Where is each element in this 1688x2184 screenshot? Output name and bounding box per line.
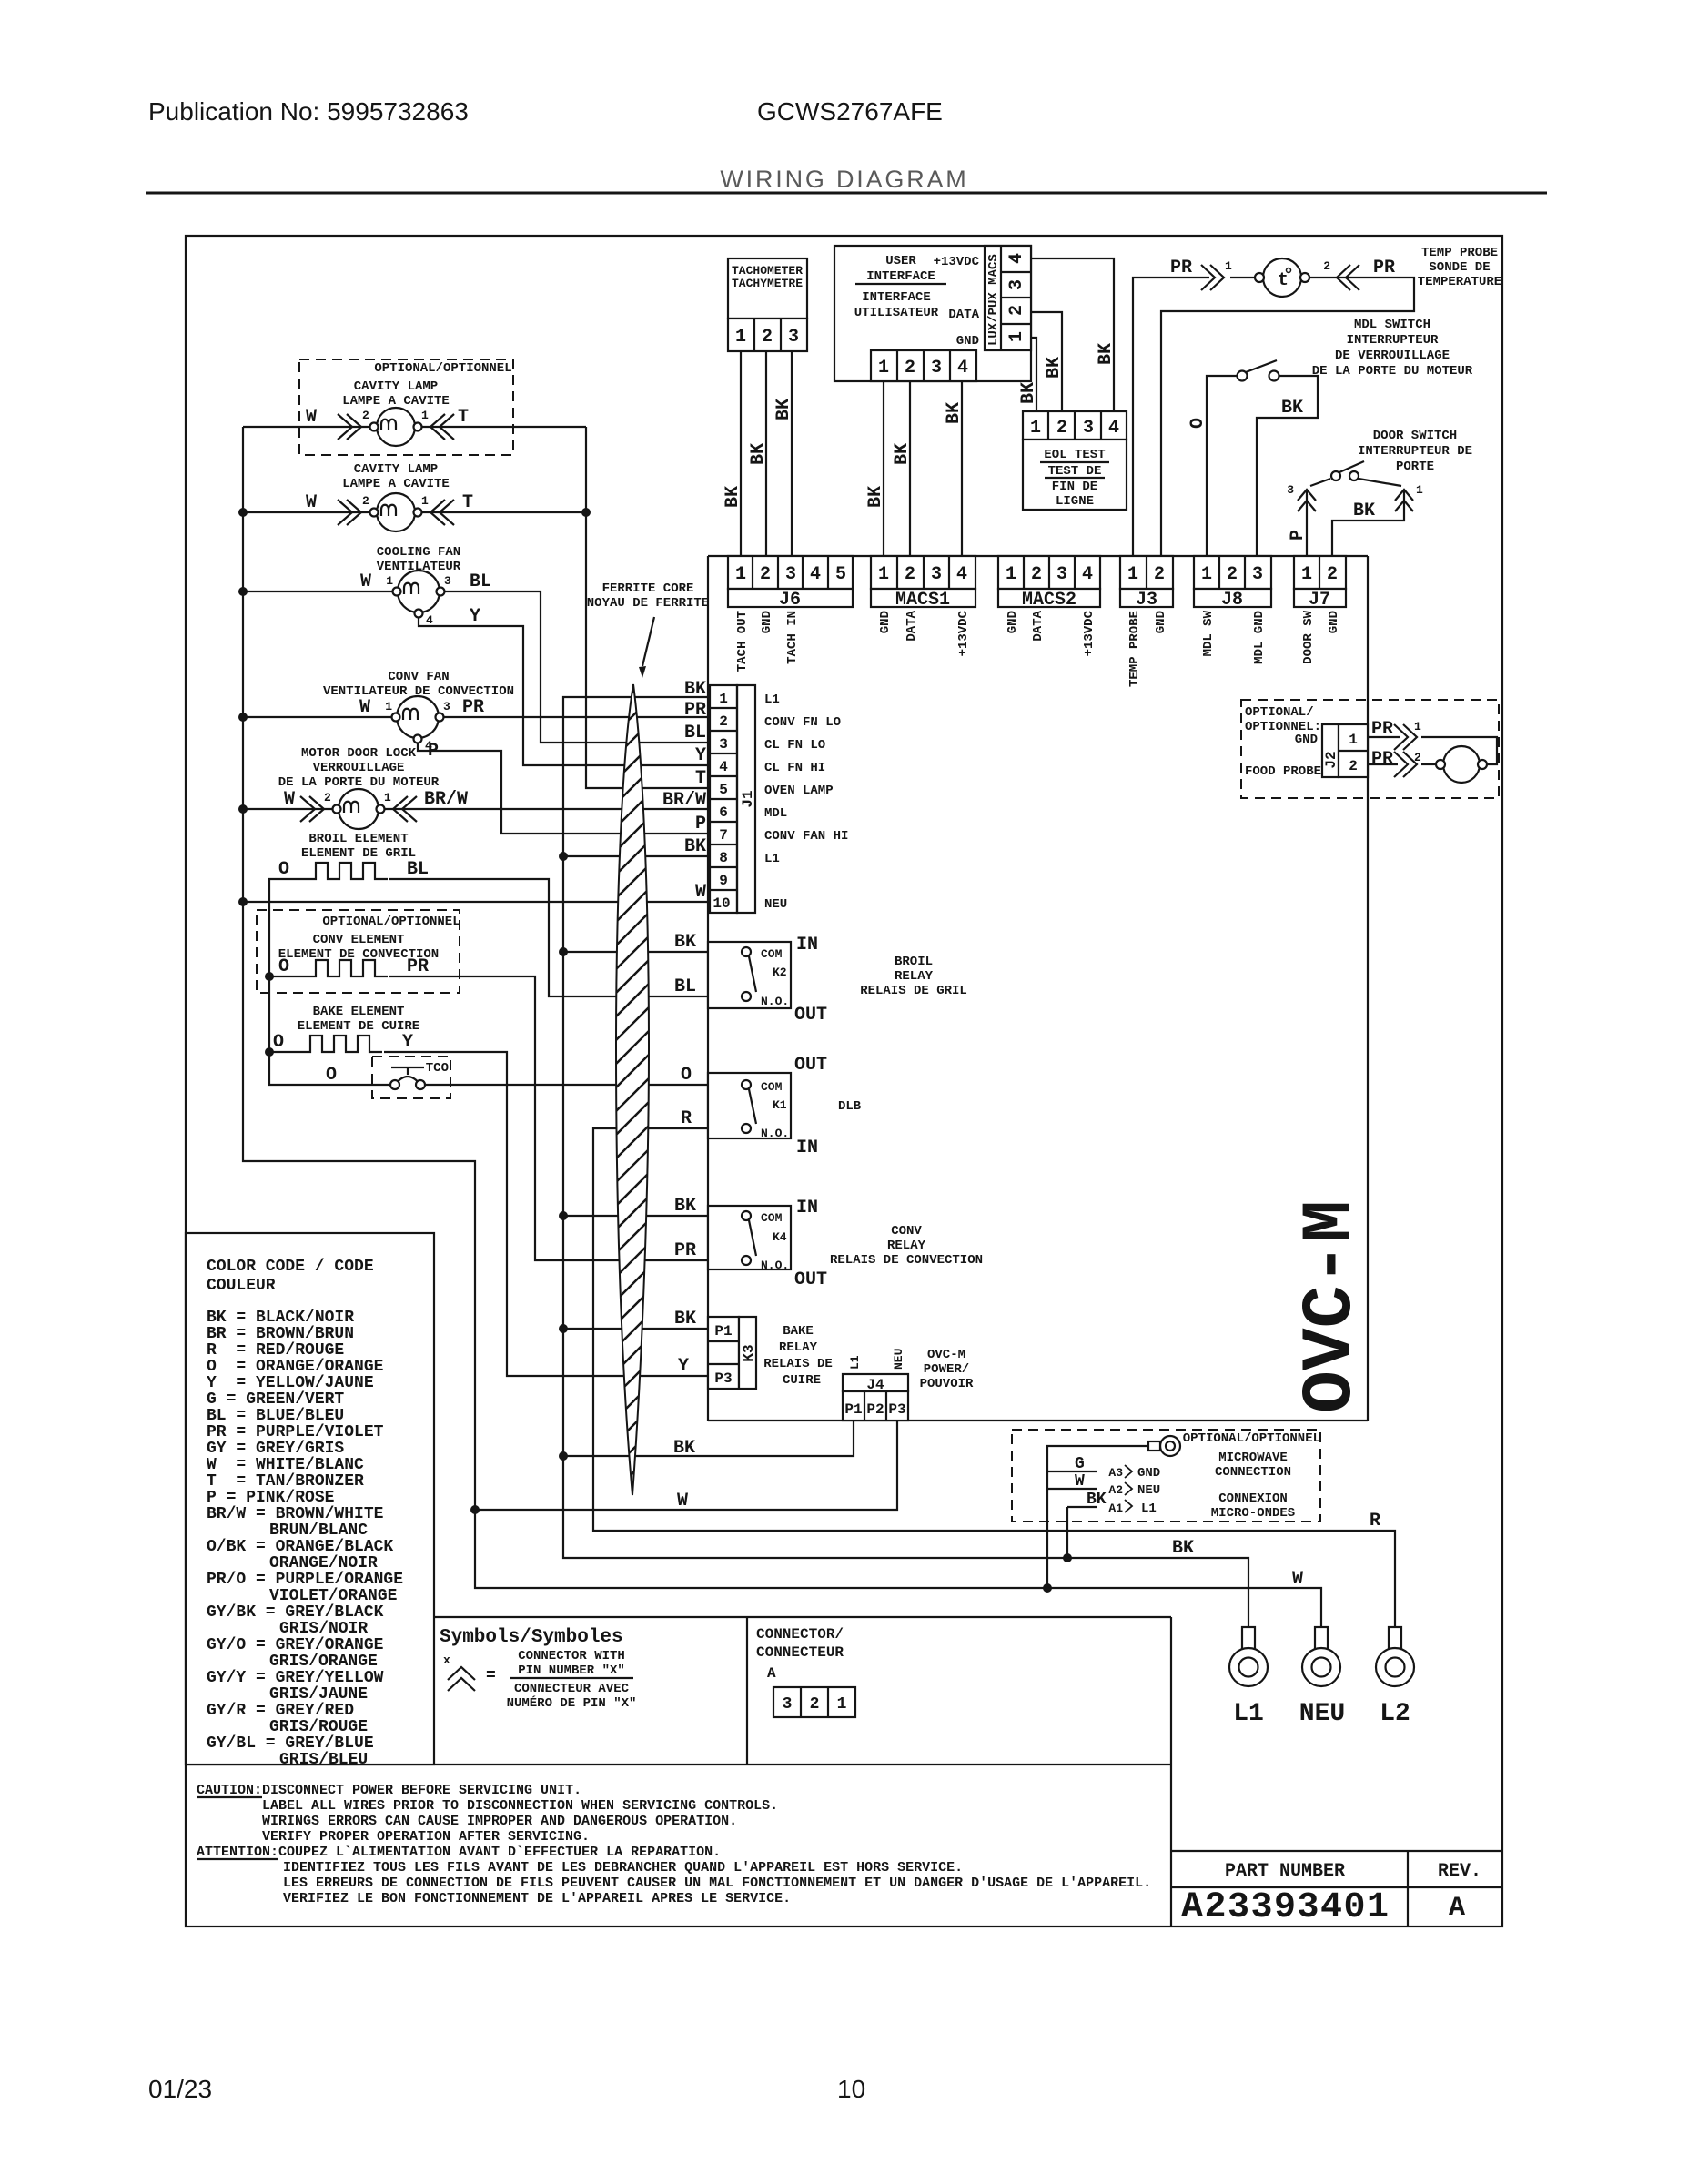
svg-text:O: O [278,859,289,880]
svg-text:BL: BL [684,723,706,743]
svg-text:LABEL ALL WIRES PRIOR TO DISCO: LABEL ALL WIRES PRIOR TO DISCONNECTION W… [262,1798,778,1814]
svg-text:W: W [1292,1569,1303,1590]
svg-text:BR/W: BR/W [424,789,468,810]
svg-text:1: 1 [1006,331,1027,342]
svg-text:BK: BK [1096,343,1117,365]
svg-text:TEST DE: TEST DE [1048,464,1102,479]
svg-text:W: W [284,789,295,810]
svg-text:OPTIONAL/OPTIONNEL: OPTIONAL/OPTIONNEL [374,361,511,376]
svg-text:DOOR SW: DOOR SW [1301,610,1316,663]
svg-text:OVC-M: OVC-M [927,1348,965,1362]
svg-text:LAMPE A CAVITE: LAMPE A CAVITE [342,477,450,491]
svg-text:J2: J2 [1323,751,1339,768]
svg-text:RELAIS DE: RELAIS DE [763,1357,833,1371]
svg-text:GRIS/JAUNE: GRIS/JAUNE [269,1685,368,1704]
svg-text:GND: GND [1154,611,1168,633]
svg-text:OUT: OUT [794,1055,827,1076]
svg-text:DLB: DLB [838,1099,862,1114]
svg-text:3: 3 [931,564,942,585]
svg-text:N.O.: N.O. [761,995,789,1008]
svg-text:4: 4 [1082,564,1093,585]
svg-text:BK: BK [944,402,965,424]
svg-text:OUT: OUT [794,1269,827,1290]
svg-text:VIOLET/ORANGE: VIOLET/ORANGE [269,1587,398,1605]
svg-text:3: 3 [1287,483,1294,497]
svg-text:T = TAN/BRONZER: T = TAN/BRONZER [207,1472,364,1491]
svg-text:J7: J7 [1309,590,1330,611]
svg-text:BRUN/BLANC: BRUN/BLANC [269,1522,368,1540]
svg-text:BR = BROWN/BRUN: BR = BROWN/BRUN [207,1325,354,1343]
svg-text:INTERFACE: INTERFACE [866,269,935,284]
svg-text:A3: A3 [1108,1466,1123,1480]
svg-text:BK: BK [1281,398,1303,419]
svg-text:IN: IN [796,1137,818,1158]
svg-text:2: 2 [762,327,773,348]
svg-text:GY = GREY/GRIS: GY = GREY/GRIS [207,1440,344,1458]
svg-text:IN: IN [796,935,818,955]
svg-text:N.O.: N.O. [761,1259,789,1272]
svg-text:CONV ELEMENT: CONV ELEMENT [313,933,405,947]
svg-text:P1: P1 [714,1323,732,1340]
svg-text:1: 1 [1006,564,1016,585]
svg-text:J3: J3 [1136,590,1157,611]
svg-text:PR: PR [674,1240,696,1261]
svg-text:ELEMENT DE GRIL: ELEMENT DE GRIL [301,846,416,861]
svg-text:O: O [278,956,289,977]
svg-text:INTERRUPTEUR: INTERRUPTEUR [1347,333,1439,348]
svg-text:1: 1 [421,409,429,422]
svg-text:CONNECTOR WITH: CONNECTOR WITH [518,1649,625,1663]
svg-text:2: 2 [1227,564,1238,585]
svg-text:Publication No: 5995732863: Publication No: 5995732863 [148,97,469,126]
svg-text:CAVITY LAMP: CAVITY LAMP [354,462,438,477]
svg-text:10: 10 [837,2075,865,2103]
svg-text:4: 4 [810,564,821,585]
svg-text:L1: L1 [764,852,780,866]
svg-text:BROIL: BROIL [895,955,933,969]
svg-text:N.O.: N.O. [761,1127,789,1140]
svg-text:INTERFACE: INTERFACE [862,290,931,305]
svg-text:2: 2 [1031,564,1042,585]
svg-text:GRIS/BLEU: GRIS/BLEU [279,1751,368,1769]
svg-text:PR = PURPLE/VIOLET: PR = PURPLE/VIOLET [207,1423,384,1441]
svg-text:P: P [695,814,706,834]
svg-text:4: 4 [1108,418,1119,439]
svg-text:1: 1 [1416,483,1423,497]
svg-text:GRIS/ROUGE: GRIS/ROUGE [269,1718,368,1736]
svg-text:P: P [1288,530,1309,541]
svg-text:1: 1 [735,564,746,585]
svg-text:3: 3 [931,358,942,379]
svg-text:MICROWAVE: MICROWAVE [1218,1451,1288,1465]
svg-text:GY/Y = GREY/YELLOW: GY/Y = GREY/YELLOW [207,1669,384,1687]
svg-text:2: 2 [905,564,915,585]
svg-text:PR/O = PURPLE/ORANGE: PR/O = PURPLE/ORANGE [207,1571,403,1589]
svg-text:Y = YELLOW/JAUNE: Y = YELLOW/JAUNE [207,1374,374,1392]
svg-text:1: 1 [1201,564,1212,585]
svg-text:TCO: TCO [426,1061,449,1076]
svg-text:OPTIONAL/OPTIONNEL: OPTIONAL/OPTIONNEL [1183,1431,1320,1446]
svg-text:W: W [306,407,317,428]
svg-text:PR: PR [407,956,429,977]
svg-text:NEU: NEU [892,1349,905,1370]
svg-text:COULEUR: COULEUR [207,1277,276,1295]
svg-text:PIN NUMBER "X": PIN NUMBER "X" [518,1663,625,1678]
svg-text:TACHYMETRE: TACHYMETRE [732,277,803,290]
svg-text:OVEN LAMP: OVEN LAMP [764,784,834,798]
svg-text:3: 3 [719,736,728,753]
svg-text:J4: J4 [866,1377,884,1393]
svg-text:VERIFY PROPER OPERATION AFTER: VERIFY PROPER OPERATION AFTER SERVICING. [262,1829,590,1845]
svg-text:NEU: NEU [1299,1700,1345,1728]
svg-text:GND: GND [1327,611,1341,633]
svg-text:REV.: REV. [1438,1861,1481,1882]
svg-text:O: O [273,1032,284,1053]
svg-text:COM: COM [761,947,783,961]
svg-text:RELAY: RELAY [887,1239,926,1253]
svg-text:A: A [1449,1893,1465,1924]
svg-text:2: 2 [719,713,728,730]
svg-text:PORTE: PORTE [1396,460,1434,474]
svg-text:IDENTIFIEZ TOUS LES FILS AVANT: IDENTIFIEZ TOUS LES FILS AVANT DE LES DE… [283,1860,963,1876]
svg-text:FOOD PROBE: FOOD PROBE [1245,764,1321,779]
svg-text:5: 5 [719,782,728,798]
svg-text:BL: BL [674,976,696,997]
svg-text:1: 1 [1349,732,1358,748]
svg-text:G = GREEN/VERT: G = GREEN/VERT [207,1390,344,1409]
svg-text:P3: P3 [888,1401,905,1418]
svg-text:BL: BL [407,859,429,880]
svg-text:O: O [326,1065,337,1086]
svg-text:BAKE ELEMENT: BAKE ELEMENT [313,1005,405,1019]
svg-text:K4: K4 [773,1230,787,1244]
svg-text:NEU: NEU [764,897,787,912]
svg-text:1: 1 [878,358,889,379]
svg-text:W: W [1075,1472,1085,1491]
svg-text:3: 3 [444,574,451,588]
svg-text:Y: Y [470,606,480,627]
svg-text:PR: PR [1373,258,1395,278]
svg-text:TEMPERATURE: TEMPERATURE [1418,275,1501,289]
svg-text:1: 1 [837,1695,847,1714]
svg-text:K2: K2 [773,966,787,979]
svg-text:BK: BK [673,1438,695,1459]
svg-text:SONDE DE: SONDE DE [1429,260,1490,275]
svg-text:2: 2 [1056,418,1067,439]
svg-text:OVC-M: OVC-M [1291,1200,1371,1413]
svg-text:MDL SWITCH: MDL SWITCH [1354,318,1430,332]
svg-text:P3: P3 [714,1370,732,1387]
svg-text:2: 2 [1349,758,1358,774]
svg-text:4: 4 [956,564,967,585]
svg-text:CONNECTEUR AVEC: CONNECTEUR AVEC [514,1682,630,1696]
svg-text:DOOR SWITCH: DOOR SWITCH [1373,429,1457,443]
svg-text:OPTIONAL/OPTIONNEL: OPTIONAL/OPTIONNEL [322,915,460,929]
svg-text:USER: USER [885,254,916,268]
svg-text:P1: P1 [844,1401,862,1418]
svg-text:R: R [1370,1511,1380,1532]
svg-text:Symbols/Symboles: Symbols/Symboles [440,1627,623,1648]
svg-text:BK: BK [773,399,794,420]
svg-text:FERRITE CORE: FERRITE CORE [602,581,694,596]
svg-text:3: 3 [785,564,796,585]
svg-text:BL = BLUE/BLEU: BL = BLUE/BLEU [207,1407,344,1425]
svg-text:4: 4 [719,759,728,775]
svg-text:NOYAU DE FERRITE: NOYAU DE FERRITE [587,596,709,611]
svg-text:P2: P2 [866,1401,884,1418]
svg-text:2: 2 [1006,305,1027,316]
svg-text:UTILISATEUR: UTILISATEUR [854,306,939,320]
svg-text:J1: J1 [740,790,756,807]
svg-text:GND: GND [760,611,774,633]
svg-text:G: G [1075,1455,1085,1473]
svg-text:TACHOMETER: TACHOMETER [732,264,803,278]
svg-text:1: 1 [385,700,392,713]
svg-text:BR/W: BR/W [662,790,706,811]
svg-text:MOTOR DOOR LOCK: MOTOR DOOR LOCK [301,746,417,761]
svg-text:PR: PR [1170,258,1192,278]
svg-text:BK: BK [1018,382,1039,404]
svg-text:GCWS2767AFE: GCWS2767AFE [757,97,943,126]
svg-text:BK: BK [674,1309,696,1330]
svg-text:L1: L1 [1233,1700,1264,1728]
svg-text:RELAY: RELAY [779,1340,818,1355]
svg-text:2: 2 [1154,564,1165,585]
svg-text:RELAIS DE CONVECTION: RELAIS DE CONVECTION [830,1253,983,1268]
svg-text:3: 3 [443,700,450,713]
svg-text:ATTENTION:COUPEZ L`ALIMENTATIO: ATTENTION:COUPEZ L`ALIMENTATION AVANT D`… [197,1845,721,1860]
svg-text:01/23: 01/23 [148,2075,212,2103]
svg-text:POUVOIR: POUVOIR [920,1377,974,1391]
svg-text:GND: GND [878,611,893,633]
svg-text:8: 8 [719,850,728,866]
svg-text:Y: Y [678,1356,689,1377]
svg-text:O: O [681,1065,692,1086]
svg-text:L1: L1 [764,693,780,707]
svg-text:2: 2 [1414,751,1421,764]
svg-text:BK = BLACK/NOIR: BK = BLACK/NOIR [207,1309,354,1327]
svg-text:T: T [462,492,473,513]
svg-text:A2: A2 [1108,1483,1123,1497]
svg-text:BK: BK [684,679,706,700]
svg-text:2: 2 [362,409,369,422]
svg-text:CONNECTION: CONNECTION [1215,1465,1291,1480]
svg-text:BK: BK [1087,1491,1107,1509]
svg-text:CAUTION:DISCONNECT POWER BEFOR: CAUTION:DISCONNECT POWER BEFORE SERVICIN… [197,1783,581,1798]
svg-text:W: W [359,697,370,718]
svg-text:3: 3 [1056,564,1067,585]
svg-text:BK: BK [1353,500,1375,521]
svg-text:5: 5 [835,564,846,585]
svg-text:GY/BK = GREY/BLACK: GY/BK = GREY/BLACK [207,1603,384,1622]
svg-text:MDL: MDL [764,806,787,821]
svg-text:BK: BK [684,836,706,857]
svg-text:LUX/PUX MACS: LUX/PUX MACS [986,254,1001,346]
svg-text:W: W [360,571,371,592]
svg-text:Y: Y [695,745,706,766]
svg-text:BK: BK [723,486,743,508]
svg-text:DE LA PORTE DU MOTEUR: DE LA PORTE DU MOTEUR [278,775,440,790]
svg-text:RELAY: RELAY [895,969,934,984]
svg-text:1: 1 [1301,564,1312,585]
svg-text:VERROUILLAGE: VERROUILLAGE [313,761,405,775]
svg-text:BK: BK [674,1196,696,1217]
svg-text:BL: BL [470,571,491,592]
svg-text:O = ORANGE/ORANGE: O = ORANGE/ORANGE [207,1358,384,1376]
svg-text:2: 2 [905,358,915,379]
svg-text:CL FN HI: CL FN HI [764,761,825,775]
svg-text:W: W [695,882,706,903]
svg-text:1: 1 [1127,564,1138,585]
svg-text:L2: L2 [1380,1700,1410,1728]
svg-text:BK: BK [674,932,696,953]
svg-text:J8: J8 [1221,590,1243,611]
svg-text:CUIRE: CUIRE [783,1373,821,1388]
svg-text:1: 1 [1225,259,1232,273]
svg-text:=: = [486,1667,496,1685]
svg-text:4: 4 [957,358,968,379]
svg-text:1: 1 [421,494,429,508]
svg-text:GRIS/ORANGE: GRIS/ORANGE [269,1653,378,1671]
svg-text:K1: K1 [773,1098,787,1112]
svg-text:4: 4 [426,613,433,627]
svg-text:2: 2 [1327,564,1338,585]
svg-text:P: P [428,741,439,762]
svg-text:GND: GND [1295,733,1318,747]
svg-text:1: 1 [1414,720,1421,733]
svg-text:R = RED/ROUGE: R = RED/ROUGE [207,1341,344,1360]
svg-text:A23393401: A23393401 [1181,1887,1389,1928]
svg-text:GY/BL = GREY/BLUE: GY/BL = GREY/BLUE [207,1734,374,1753]
svg-text:O: O [1188,418,1208,429]
svg-text:TEMP PROBE: TEMP PROBE [1421,246,1498,260]
svg-text:MDL SW: MDL SW [1201,610,1216,656]
svg-text:DATA: DATA [1031,610,1046,641]
svg-text:LIGNE: LIGNE [1056,494,1094,509]
svg-text:WIRINGS ERRORS CAN CAUSE IMPRO: WIRINGS ERRORS CAN CAUSE IMPROPER AND DA… [262,1814,737,1829]
svg-text:CONV FAN: CONV FAN [388,670,449,684]
svg-text:BK: BK [1172,1538,1194,1559]
svg-text:3: 3 [1083,418,1094,439]
svg-text:1: 1 [1030,418,1041,439]
svg-text:LES ERREURS DE CONNECTION DE F: LES ERREURS DE CONNECTION DE FILS PEUVEN… [283,1876,1151,1891]
svg-text:GRIS/NOIR: GRIS/NOIR [279,1620,368,1638]
svg-text:L1: L1 [1141,1501,1157,1516]
svg-text:DE VERROUILLAGE: DE VERROUILLAGE [1335,349,1450,363]
svg-text:CONNEXION: CONNEXION [1218,1491,1288,1506]
svg-text:EOL TEST: EOL TEST [1044,448,1105,462]
svg-text:2: 2 [1323,259,1330,273]
svg-text:GND: GND [1006,611,1020,633]
svg-text:7: 7 [719,827,728,844]
svg-text:PR: PR [1371,749,1393,770]
svg-text:BK: BK [892,443,913,465]
svg-text:MACS2: MACS2 [1022,590,1076,611]
svg-text:W: W [677,1491,688,1512]
svg-text:PART NUMBER: PART NUMBER [1225,1861,1345,1882]
svg-text:BK: BK [748,443,769,465]
svg-text:PR: PR [1371,719,1393,740]
svg-text:2: 2 [760,564,771,585]
svg-text:2: 2 [324,791,331,804]
svg-text:K3: K3 [741,1344,757,1361]
svg-text:+13VDC: +13VDC [956,610,971,656]
svg-text:O/BK = ORANGE/BLACK: O/BK = ORANGE/BLACK [207,1538,393,1556]
svg-text:CL FN LO: CL FN LO [764,738,825,753]
svg-text:NEU: NEU [1137,1483,1160,1498]
svg-text:COM: COM [761,1211,783,1225]
svg-text:T: T [695,768,706,789]
svg-text:IN: IN [796,1198,818,1218]
svg-text:OPTIONAL/: OPTIONAL/ [1245,705,1314,720]
svg-text:VERIFIEZ LE BON FONCTIONNEMENT: VERIFIEZ LE BON FONCTIONNEMENT DE L'APPA… [283,1891,791,1906]
svg-text:CONV FAN HI: CONV FAN HI [764,829,848,844]
svg-text:OUT: OUT [794,1005,827,1026]
svg-text:GY/R = GREY/RED: GY/R = GREY/RED [207,1702,354,1720]
svg-text:COLOR CODE / CODE: COLOR CODE / CODE [207,1258,374,1276]
svg-text:2: 2 [362,494,369,508]
svg-text:MACS1: MACS1 [895,590,950,611]
svg-text:W = WHITE/BLANC: W = WHITE/BLANC [207,1456,364,1474]
svg-text:+13VDC: +13VDC [1082,610,1097,656]
svg-text:INTERRUPTEUR DE: INTERRUPTEUR DE [1358,444,1472,459]
svg-text:3: 3 [1252,564,1263,585]
svg-text:BK: BK [865,486,886,508]
svg-text:3: 3 [1006,279,1027,290]
svg-text:MDL GND: MDL GND [1252,611,1267,664]
svg-text:TACH IN: TACH IN [785,611,800,664]
svg-text:10: 10 [713,895,730,912]
svg-text:MICRO-ONDES: MICRO-ONDES [1211,1506,1295,1521]
svg-text:BAKE: BAKE [783,1324,814,1339]
svg-text:COOLING FAN: COOLING FAN [377,545,460,560]
svg-text:1: 1 [719,691,728,707]
svg-text:3: 3 [783,1695,793,1714]
svg-text:COM: COM [761,1080,783,1094]
svg-text:GY/O = GREY/ORANGE: GY/O = GREY/ORANGE [207,1636,384,1654]
svg-text:FIN DE: FIN DE [1052,480,1097,494]
svg-text:CONNECTOR/: CONNECTOR/ [756,1626,844,1643]
svg-text:1: 1 [878,564,889,585]
svg-text:J6: J6 [779,590,801,611]
svg-text:GND: GND [956,334,979,349]
svg-text:TEMP PROBE: TEMP PROBE [1127,611,1142,687]
svg-text:1: 1 [735,327,746,348]
svg-text:t: t [1278,270,1289,291]
svg-text:+13VDC: +13VDC [934,255,980,269]
svg-text:A1: A1 [1108,1501,1123,1515]
svg-text:4: 4 [1006,253,1027,264]
svg-text:PR: PR [684,700,706,721]
svg-text:LAMPE A CAVITE: LAMPE A CAVITE [342,394,450,409]
svg-text:PR: PR [462,697,484,718]
svg-text:TACH OUT: TACH OUT [735,611,750,672]
svg-text:R: R [681,1108,692,1129]
svg-text:W: W [306,492,317,513]
svg-text:CAVITY LAMP: CAVITY LAMP [354,379,438,394]
svg-text:ORANGE/NOIR: ORANGE/NOIR [269,1554,378,1572]
svg-text:A: A [767,1665,776,1682]
svg-text:DATA: DATA [948,308,979,322]
svg-text:CONV FN LO: CONV FN LO [764,715,841,730]
svg-text:9: 9 [719,873,728,889]
svg-text:x: x [443,1653,450,1667]
svg-text:2: 2 [810,1695,820,1714]
svg-text:Y: Y [402,1032,413,1053]
svg-text:WIRING DIAGRAM: WIRING DIAGRAM [720,166,968,193]
svg-text:RELAIS DE GRIL: RELAIS DE GRIL [860,984,967,998]
svg-text:BK: BK [1044,357,1065,379]
